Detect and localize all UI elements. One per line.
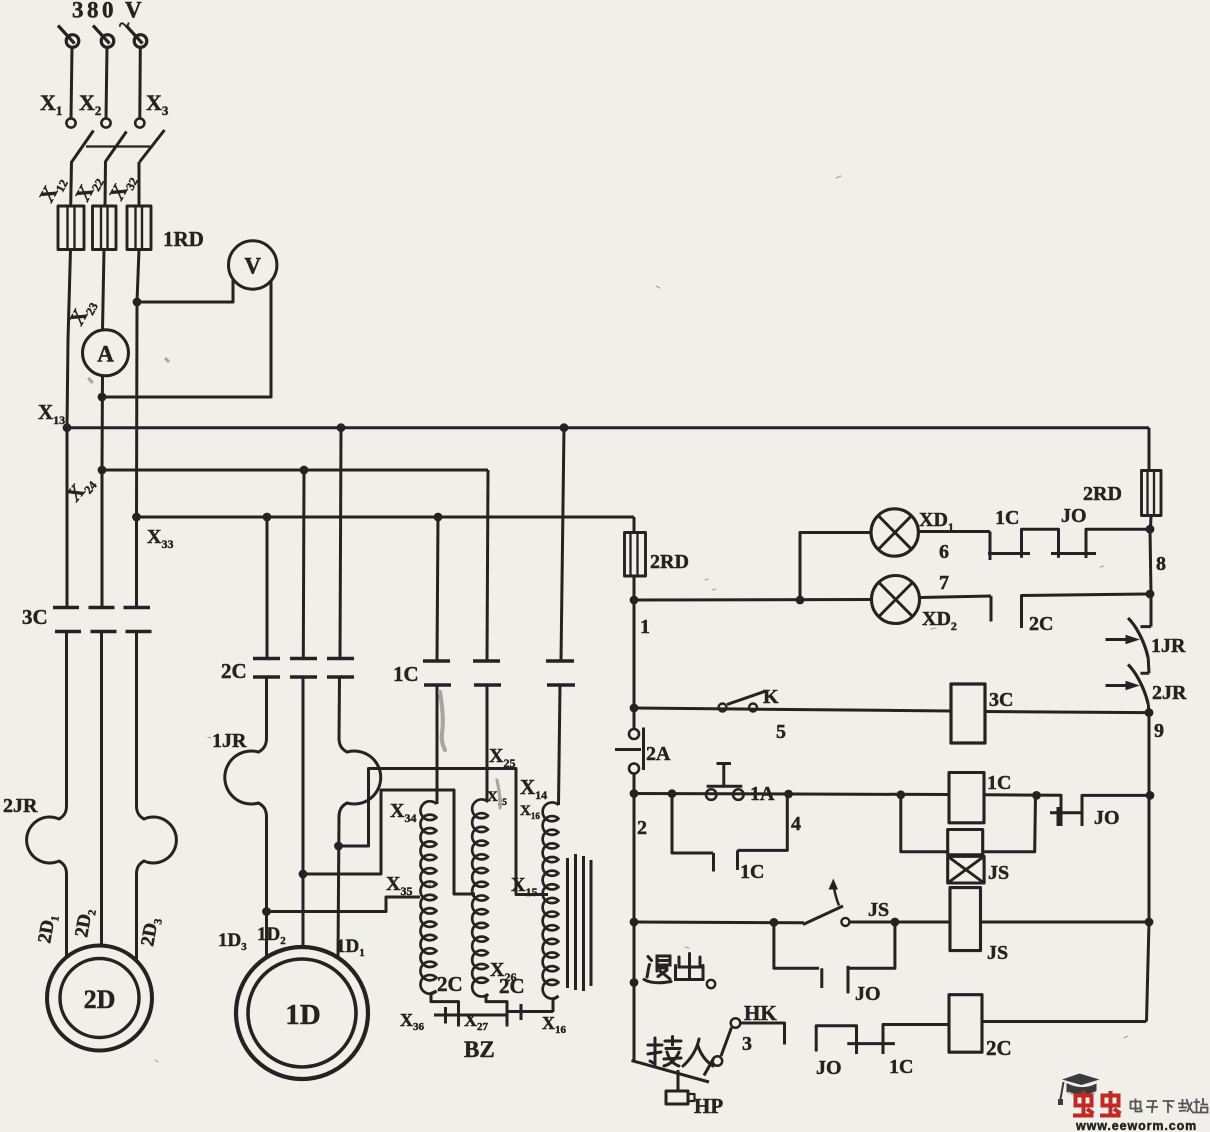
svg-text:2JR: 2JR (3, 795, 38, 817)
svg-text:4: 4 (791, 813, 801, 835)
svg-text:7: 7 (939, 572, 949, 594)
svg-text:K: K (763, 686, 779, 708)
svg-text:2C: 2C (221, 659, 247, 683)
svg-text:2C: 2C (1029, 613, 1053, 635)
svg-text:1: 1 (640, 616, 650, 638)
svg-text:1C: 1C (987, 772, 1011, 794)
svg-text:JO: JO (1061, 505, 1087, 527)
svg-text:HP: HP (694, 1094, 723, 1118)
svg-text:5: 5 (776, 721, 786, 743)
svg-text:1RD: 1RD (163, 227, 204, 251)
svg-text:www.eeworm.com: www.eeworm.com (1075, 1119, 1197, 1132)
svg-text:HK: HK (744, 1001, 777, 1025)
svg-text:2RD: 2RD (1083, 483, 1122, 505)
svg-text:3C: 3C (989, 689, 1013, 711)
svg-text:1D: 1D (285, 999, 320, 1031)
svg-text:JS: JS (988, 862, 1009, 884)
svg-text:380: 380 (72, 0, 117, 23)
svg-text:1C: 1C (740, 861, 764, 883)
svg-text:~: ~ (119, 14, 130, 36)
svg-text:2D: 2D (84, 985, 116, 1014)
svg-text:1A: 1A (750, 783, 775, 805)
svg-text:V: V (244, 254, 261, 279)
svg-text:JS: JS (868, 899, 889, 921)
svg-text:1C: 1C (889, 1056, 913, 1078)
svg-text:3: 3 (742, 1033, 752, 1055)
svg-text:JS: JS (987, 942, 1008, 964)
svg-text:1C: 1C (393, 662, 419, 686)
svg-text:9: 9 (1154, 720, 1164, 742)
svg-text:8: 8 (1156, 553, 1166, 575)
svg-text:A: A (97, 342, 114, 367)
svg-text:JO: JO (816, 1057, 842, 1079)
svg-text:1JR: 1JR (212, 730, 247, 752)
svg-text:2: 2 (637, 817, 647, 839)
svg-text:2C: 2C (986, 1036, 1012, 1060)
svg-text:1C: 1C (995, 507, 1019, 529)
svg-text:6: 6 (939, 541, 949, 563)
svg-text:BZ: BZ (464, 1037, 495, 1062)
svg-text:1JR: 1JR (1151, 635, 1186, 657)
svg-text:3C: 3C (22, 605, 48, 629)
svg-text:JO: JO (855, 983, 881, 1005)
svg-text:2C: 2C (499, 974, 525, 998)
svg-text:2A: 2A (646, 743, 671, 765)
svg-text:2RD: 2RD (650, 551, 689, 573)
svg-text:2JR: 2JR (1152, 682, 1187, 704)
svg-text:2C: 2C (437, 972, 463, 996)
svg-text:JO: JO (1094, 807, 1120, 829)
